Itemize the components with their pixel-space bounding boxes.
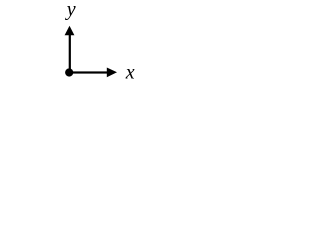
svg-text:y: y [65, 0, 76, 20]
svg-text:x: x [125, 62, 135, 84]
